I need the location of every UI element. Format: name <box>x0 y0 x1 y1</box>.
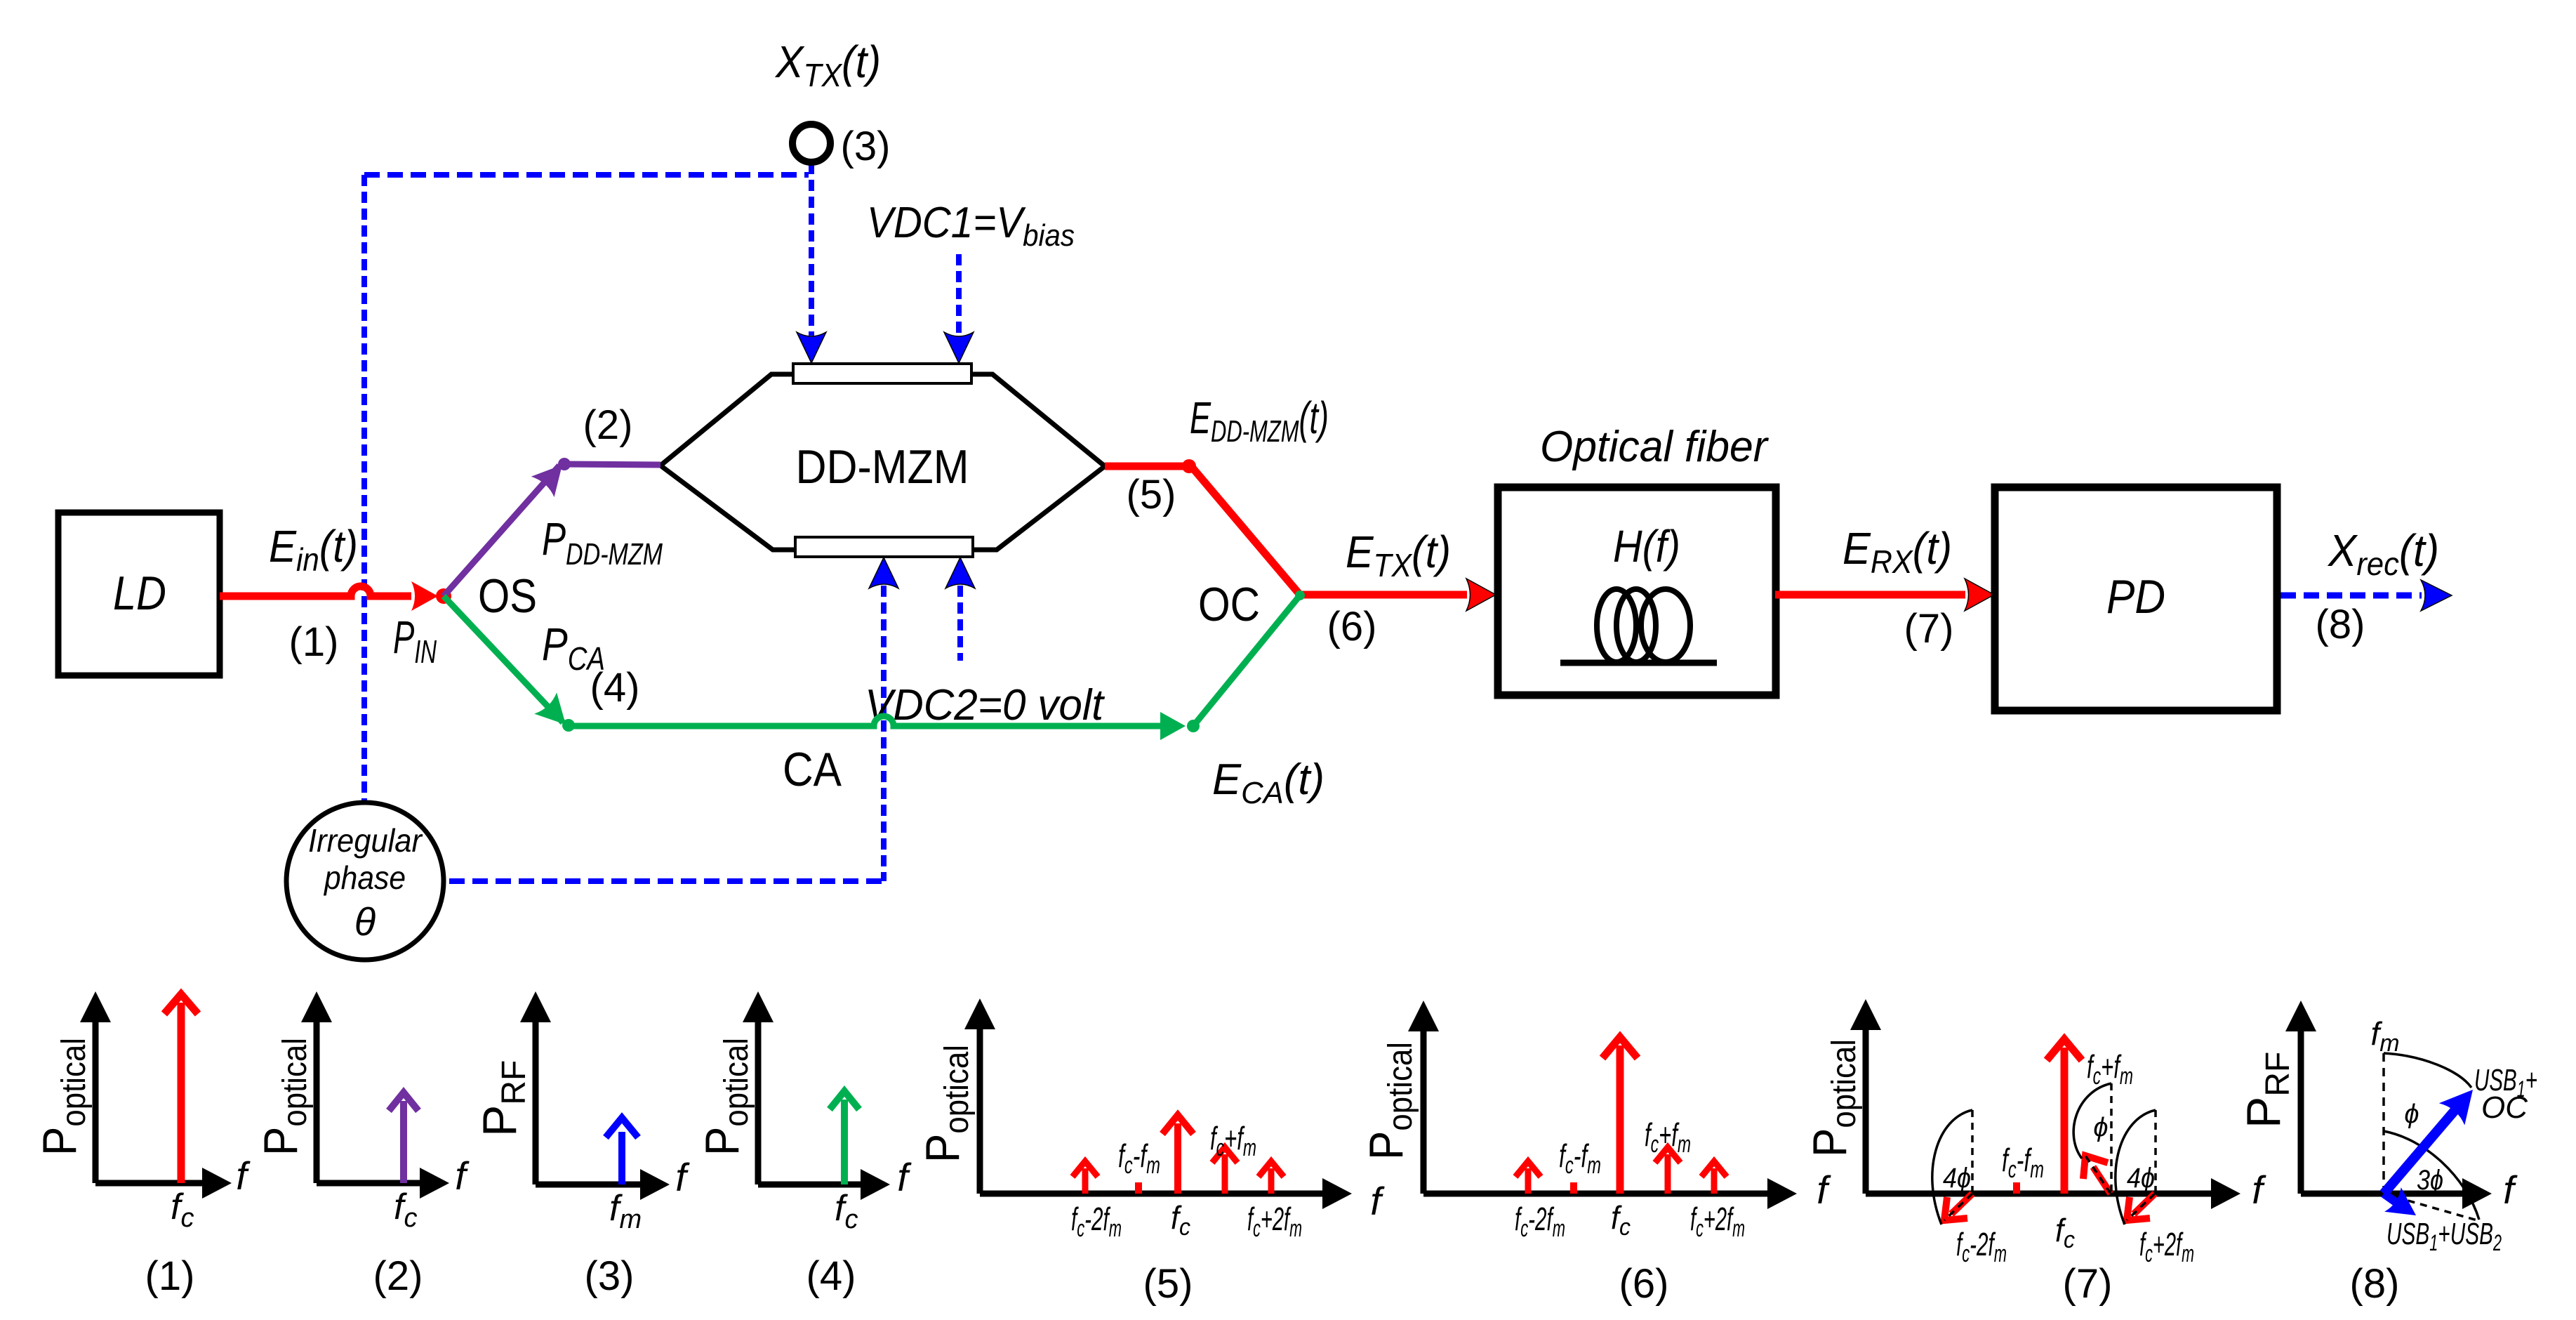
impulse blue fm plot3 <box>606 1118 638 1184</box>
phasor dashes mid plot7 <box>2085 1083 2111 1194</box>
impulse red fc plot5 <box>1162 1115 1193 1194</box>
svg-text:phase: phase <box>323 859 406 896</box>
svg-text:H(f): H(f) <box>1613 521 1680 572</box>
wire red LD to OS with hop <box>220 586 411 596</box>
arc 3phi plot8 <box>2384 1131 2479 1220</box>
dashed vertical fm plot8 <box>2382 1053 2385 1194</box>
svg-text:(3): (3) <box>841 124 891 169</box>
wire green up to OC <box>1193 595 1300 726</box>
impulse red tick fc-fm plot5 <box>1135 1182 1142 1194</box>
arrowhead red into OS <box>411 581 438 611</box>
svg-text:(1): (1) <box>145 1253 195 1299</box>
svg-text:(4): (4) <box>806 1253 856 1299</box>
svg-text:(6): (6) <box>1619 1261 1669 1307</box>
axis plot6 <box>1423 1029 1767 1194</box>
svg-text:Optical fiber: Optical fiber <box>1540 423 1769 471</box>
electrode top of DD-MZM <box>793 364 971 383</box>
svg-text:4ϕ: 4ϕ <box>1943 1163 1971 1194</box>
arrowhead blue up into bottom electrode (theta) <box>869 557 898 588</box>
wire hexagon top-left arm <box>660 374 795 466</box>
wire red fiber to PD <box>1775 591 1965 599</box>
impulse purple fc plot2 <box>389 1093 418 1183</box>
label P optical plot2 <box>254 1038 314 1156</box>
wire dashed horizontal X_TX feed <box>364 172 809 178</box>
arc phi mid plot7 <box>2073 1083 2111 1159</box>
arrowhead red into fiber <box>1466 579 1496 611</box>
impulse red fc tall plot7 <box>2047 1039 2082 1194</box>
impulse red fc+2fm plot6 <box>1701 1161 1727 1194</box>
label P optical plot4 <box>696 1038 755 1156</box>
dashed slant line plot8 <box>2384 1194 2477 1220</box>
label Irregular phase theta <box>308 822 423 944</box>
block Optical fiber <box>1498 487 1776 695</box>
svg-text:(4): (4) <box>590 665 640 711</box>
arc fm to USB1+OC plot8 <box>2384 1053 2471 1088</box>
node green dot CA start <box>562 719 575 732</box>
arrowhead blue down into top electrode (X_TX) <box>797 332 826 363</box>
impulse red tick fc-fm plot6 <box>1570 1182 1577 1194</box>
impulse red tick fc-fm plot7 <box>2013 1182 2020 1194</box>
wire green CA horizontal with hop <box>569 716 1162 726</box>
svg-text:PD: PD <box>2106 570 2165 623</box>
axis plot8 <box>2301 1029 2462 1194</box>
wire green OS down to CA line <box>444 596 563 722</box>
arrowhead purple up-right <box>531 454 574 497</box>
svg-text:4ϕ: 4ϕ <box>2127 1163 2155 1194</box>
label P RF plot3 <box>473 1060 533 1137</box>
phasor dashes fc-2fm plot7 <box>1944 1110 1972 1220</box>
axis plot4 <box>758 1019 861 1184</box>
impulse red fc+fm plot5 <box>1212 1147 1237 1194</box>
arrowhead green down-right <box>534 692 577 735</box>
arrowhead red into PD <box>1965 579 1994 611</box>
wire hexagon bottom-left arm <box>660 466 797 550</box>
arrowhead blue up into bottom electrode (VDC2) <box>945 557 975 588</box>
wire dashed horizontal from theta circle <box>449 878 884 884</box>
wire dashed VDC1 down to top electrode <box>956 254 962 336</box>
svg-text:(2): (2) <box>583 402 633 448</box>
axis plot2 <box>317 1019 420 1183</box>
svg-text:CA: CA <box>783 743 842 796</box>
svg-text:ϕ: ϕ <box>2093 1113 2108 1142</box>
node OS junction dot <box>436 588 451 604</box>
wire dashed VDC2 below bottom electrode <box>957 586 963 661</box>
node purple dot at (2) <box>558 458 571 470</box>
block PD <box>1995 487 2277 711</box>
impulse red fc+fm plot6 <box>1655 1147 1680 1194</box>
svg-text:(1): (1) <box>289 619 339 665</box>
svg-text:(7): (7) <box>2063 1261 2113 1307</box>
label P optical plot6 <box>1360 1042 1419 1160</box>
wire hexagon top-right arm <box>970 374 1105 466</box>
electrode bottom of DD-MZM <box>795 537 973 557</box>
impulse red fc+2fm plot5 <box>1259 1161 1284 1194</box>
label P optical plot7 <box>1803 1039 1863 1157</box>
axis plot5 <box>980 1027 1322 1194</box>
svg-text:(5): (5) <box>1143 1261 1193 1307</box>
svg-text:Irregular: Irregular <box>308 822 423 859</box>
axis plot1 <box>95 1019 204 1183</box>
arc 4phi left plot7 <box>1932 1110 1972 1225</box>
arrowhead blue right PD output X_rec <box>2421 580 2452 611</box>
label P optical plot5 <box>916 1045 976 1163</box>
svg-text:USB1+USB2: USB1+USB2 <box>2386 1217 2502 1255</box>
impulse red fc-2fm plot5 <box>1073 1161 1098 1194</box>
svg-text:(8): (8) <box>2350 1261 2400 1307</box>
svg-text:OS: OS <box>478 569 537 623</box>
wire hexagon bottom-right arm <box>971 466 1105 550</box>
node OC junction dot <box>1295 590 1305 600</box>
svg-text:OC: OC <box>2481 1090 2528 1125</box>
svg-text:VDC2=0 volt: VDC2=0 volt <box>865 681 1106 730</box>
svg-text:OC: OC <box>1198 578 1260 631</box>
svg-text:LD: LD <box>113 567 166 620</box>
wire dashed vertical X_TX down to theta circle <box>361 175 367 801</box>
wire dashed theta feed up to bottom electrode <box>881 586 887 881</box>
phasor dashes fc+2fm plot7 <box>2127 1110 2156 1220</box>
svg-text:ϕ: ϕ <box>2404 1100 2419 1129</box>
phasor red down-left at fc-2fm plot7 <box>1944 1194 1972 1220</box>
svg-text:(8): (8) <box>2316 602 2365 647</box>
node red dot at (5) <box>1182 459 1196 473</box>
impulse red fc tall plot6 <box>1602 1037 1638 1194</box>
wire dashed vertical from node (3) to top electrode <box>809 163 814 336</box>
wire red DD-MZM output to OC <box>1105 466 1467 595</box>
block Irregular phase theta circle <box>286 803 444 960</box>
wire dashed PD output <box>2280 593 2422 599</box>
node green dot CA end <box>1187 720 1200 732</box>
node (3) input port circle <box>792 124 830 162</box>
fiber coil <box>1560 589 1717 663</box>
phasor blue USB1+USB2 plot8 <box>2384 1194 2401 1206</box>
phasor red down-left at fc+2fm plot7 <box>2127 1194 2155 1220</box>
phasor blue USB1+OC plot8 <box>2384 1107 2458 1194</box>
svg-text:(3): (3) <box>585 1253 635 1299</box>
svg-text:DD-MZM: DD-MZM <box>796 440 969 494</box>
arrowhead blue down into top electrode (VDC1) <box>944 332 974 363</box>
arrowhead green right end of CA <box>1160 712 1186 740</box>
arc 4phi right plot7 <box>2116 1110 2156 1225</box>
phasor red up-left mid plot7 <box>2083 1156 2111 1194</box>
svg-text:(2): (2) <box>373 1253 423 1299</box>
block LD <box>58 513 220 675</box>
svg-text:(5): (5) <box>1127 472 1176 517</box>
impulse green fc plot4 <box>830 1091 859 1184</box>
impulse red fc-2fm plot6 <box>1515 1161 1541 1194</box>
label P RF plot8 <box>2237 1052 2297 1128</box>
svg-text:(6): (6) <box>1327 604 1377 649</box>
svg-text:(7): (7) <box>1904 606 1954 652</box>
svg-text:3ϕ: 3ϕ <box>2417 1165 2443 1196</box>
wire purple OS to DD-MZM input <box>444 464 660 596</box>
label P optical plot1 <box>33 1038 93 1156</box>
axis plot7 <box>1866 1027 2211 1194</box>
impulse red fc plot1 <box>164 994 198 1183</box>
svg-text:θ: θ <box>354 899 376 944</box>
axis plot3 <box>536 1019 640 1184</box>
